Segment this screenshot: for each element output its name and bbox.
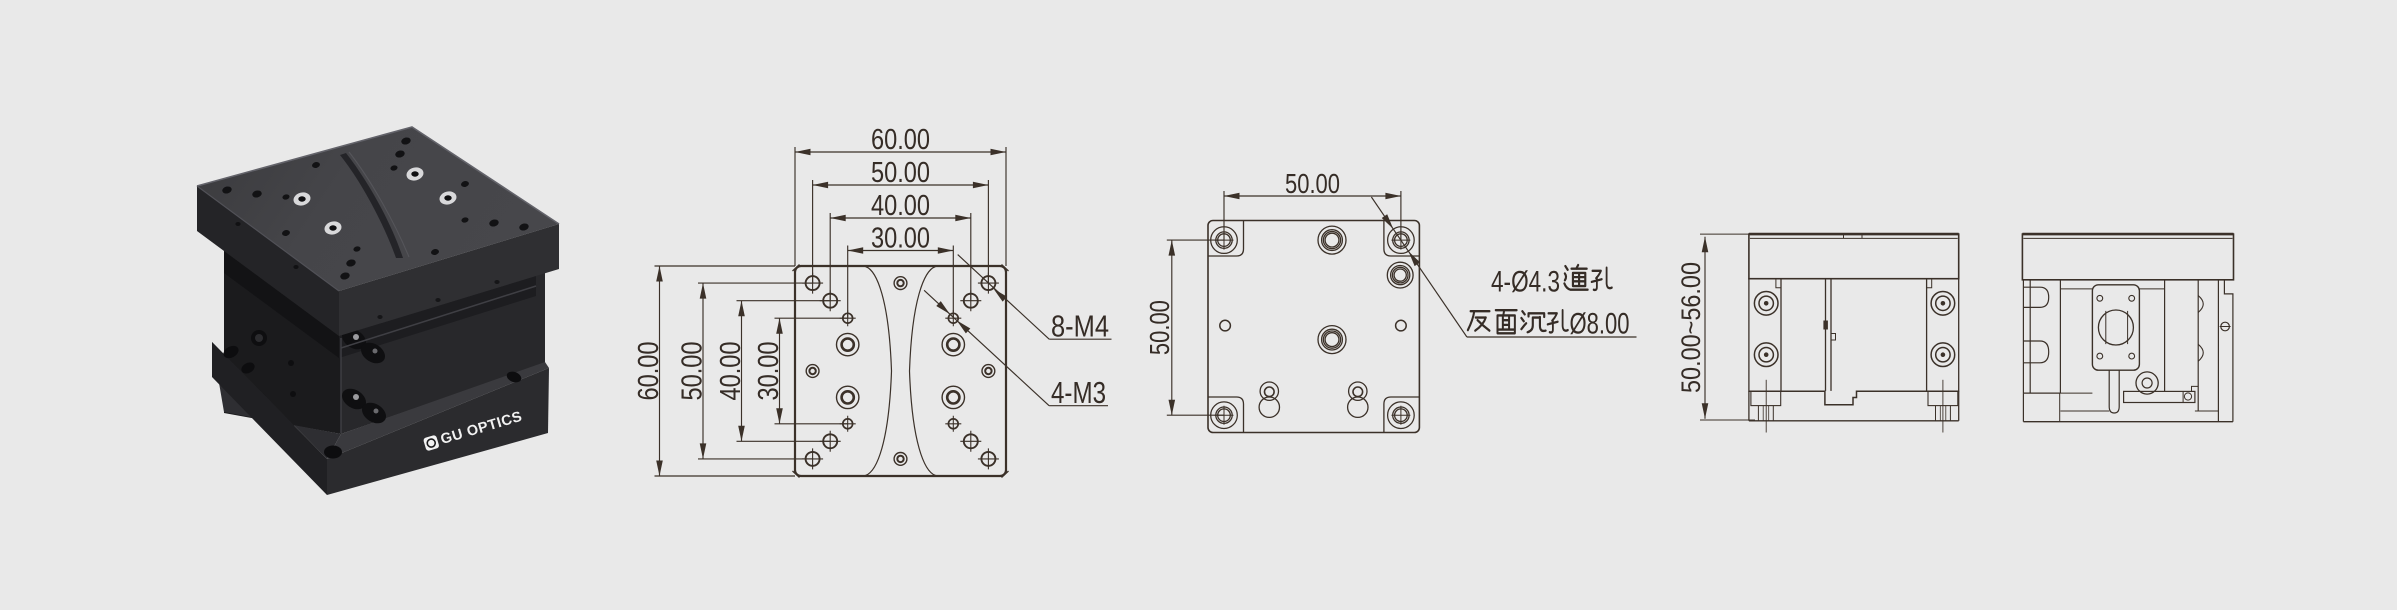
photo shadow under plate [224,251,339,358]
front view: right foot [1928,391,1958,405]
top view: extension lines left [655,265,796,267]
photo GU OPTICS logo [423,409,525,453]
top view: small center holes [806,365,819,378]
photo base top rim left [212,342,341,459]
svg-text:Ø8.00: Ø8.00 [1570,308,1630,341]
bottom view: label counterbore dia8.00 (CJK) [1468,311,1490,330]
front view: body bottom and center notch [1749,391,1959,405]
front view: dimension 50.00~56.00 [1704,237,1706,419]
side view: step lines [2060,288,2092,290]
side view: left edge and tabs [2022,280,2024,393]
front view: left column [1749,279,1781,392]
top view: counterbore holes [837,333,859,355]
svg-text:60.00: 60.00 [633,342,665,401]
side view: bearing circle [2136,372,2158,394]
dimension 40.00 horizontal [830,217,971,219]
photo plate edge highlights [197,127,559,224]
front view: top plate [1749,234,1959,279]
dimension 50.00 vertical [702,283,704,459]
top view: flexure split curves [866,267,892,476]
photo: 3D render of GU OPTICS lab jack [197,127,559,495]
dimension 50.00 horizontal [813,184,989,186]
dimension 30.00 horizontal [848,250,954,252]
front view: base outline [1748,391,1750,421]
photo corner clamps [338,324,370,353]
side view: lead screw [2109,370,2119,413]
photo body left face [224,248,341,434]
front view: cap screws [1754,292,1778,316]
photo base wing holes [221,343,240,360]
dimension 60.00 horizontal [795,151,1006,153]
svg-text:30.00: 30.00 [753,342,785,401]
svg-text:40.00: 40.00 [871,190,930,222]
leader 8-M4 [958,255,1049,340]
svg-text:40.00: 40.00 [715,342,747,401]
svg-text:8-M4: 8-M4 [1051,310,1109,344]
side view: mid verticals and bumps [2164,280,2166,392]
top view: extension lines top [794,147,796,266]
bottom view: dimension 50.00 vertical [1171,240,1173,415]
svg-text:4-Ø4.3: 4-Ø4.3 [1491,266,1560,299]
svg-text:50.00~56.00: 50.00~56.00 [1676,262,1706,393]
dimension 30.00 vertical [779,318,781,424]
front view: center rails [1825,279,1827,391]
svg-text:4-M3: 4-M3 [1051,376,1106,410]
photo plate washer holes [292,191,312,208]
side view: motor plate [2092,285,2139,370]
side view: bottom bar [2124,391,2195,402]
photo base top rim right [327,362,549,459]
bottom view: corner cap screws [1211,227,1238,254]
bottom view: small side holes [1220,320,1231,331]
bottom view: corner bosses [1208,221,1244,257]
side view: plate bottom line [2022,279,2233,281]
photo top plate left face [197,186,339,336]
photo body corner ridge [340,338,342,433]
side view: right edge with step [2217,280,2219,422]
top view: 4-M3 tapped holes [840,310,856,326]
svg-text:50.00: 50.00 [871,157,930,189]
bottom view: leader 4-dia4.3 [1371,197,1467,337]
front view: right column [1927,279,1959,392]
photo body seam highlight [341,286,536,348]
bottom view: washer holes [1318,226,1346,254]
svg-text:60.00: 60.00 [871,124,930,156]
photo left face screw [251,330,267,346]
photo base right face [327,368,549,495]
front view: extension lines [1700,233,1749,235]
top view: corner chamfer marks [793,265,1009,478]
dimension 40.00 vertical [741,301,743,442]
bottom view: counterbore hole [1387,262,1413,288]
photo body right face [341,250,545,434]
top view: 8-M4 tapped holes [802,273,823,294]
photo base left face [212,342,327,495]
bottom view: extension lines [1223,191,1225,240]
front view: plate split ticks [1843,234,1845,238]
svg-text:50.00: 50.00 [677,342,709,401]
photo plate split curve [340,153,403,258]
top view: plate outline [795,266,1006,476]
svg-text:50.00: 50.00 [1285,168,1340,199]
leader 4-M3 [924,290,1049,405]
side view: bottom [2023,392,2060,394]
side view: top plate [2022,234,2233,280]
bottom view: foot clusters [1260,382,1278,400]
svg-text:30.00: 30.00 [871,223,930,255]
front view: centerlines [1765,380,1767,433]
front view: left foot [1751,391,1781,405]
bottom view: plate outline [1208,221,1419,433]
photo plate holes [222,185,233,194]
bottom view: dimension 50.00 horizontal [1224,195,1401,197]
dimension 60.00 vertical [659,266,661,476]
photo top plate right face [339,224,559,336]
side view: right set screw [2221,322,2230,331]
photo plate side holes [235,222,240,226]
svg-text:50.00: 50.00 [1144,300,1175,355]
